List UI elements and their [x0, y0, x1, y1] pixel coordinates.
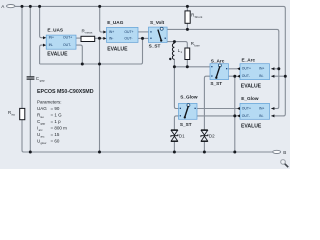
- svg-text:iso: iso: [40, 115, 44, 119]
- block E_Glow EVALUE: [240, 103, 270, 119]
- node dot bottom-D2: [203, 151, 206, 154]
- svg-text:Parameters:: Parameters:: [37, 99, 62, 104]
- switch S_Volt pivot: [160, 39, 162, 41]
- svg-text:EVALUE: EVALUE: [241, 124, 262, 130]
- svg-text:OUT-: OUT-: [124, 36, 132, 40]
- inductor L1 end blob: [169, 58, 171, 60]
- wire E_UAS OUT+ to R_meas: [76, 37, 81, 39]
- node dot W67-L1: [173, 65, 176, 68]
- parameters text block: [37, 89, 94, 145]
- magnifier icon: [281, 160, 286, 165]
- svg-text:UAG: UAG: [37, 106, 47, 111]
- svg-text:IN+: IN+: [259, 67, 264, 71]
- svg-text:IN+: IN+: [49, 36, 54, 40]
- resistor R_Shunt: [185, 11, 190, 23]
- svg-text:IN-: IN-: [49, 43, 54, 47]
- svg-text:gap: gap: [41, 121, 46, 125]
- svg-text:IN-: IN-: [259, 114, 264, 118]
- terminal B ellipse: [273, 150, 281, 153]
- wire D2 bottom stub: [203, 142, 205, 153]
- wire D1 bottom stub: [173, 142, 175, 153]
- svg-text:OUT+: OUT+: [63, 36, 72, 40]
- svg-text:EVALUE: EVALUE: [241, 84, 262, 90]
- svg-text:EPCOS M50-C90X5MD: EPCOS M50-C90X5MD: [37, 89, 94, 95]
- svg-text:OUT-: OUT-: [242, 114, 250, 118]
- block S_Volt switch: [149, 27, 168, 42]
- switch S_Arc pin marks: [211, 66, 227, 77]
- node dot EArc IN- x285: [284, 75, 287, 78]
- wire E_Arc IN+ stub: [271, 68, 279, 70]
- wire R_fuse bottom stub: [186, 60, 188, 67]
- svg-text:Shunt: Shunt: [195, 15, 203, 19]
- node dot bottom-x99: [98, 151, 101, 154]
- wire L1 top stub: [173, 42, 175, 44]
- wire x99 drop from R_meas node: [99, 38, 101, 152]
- wire V2 C_gap branch lower: [29, 80, 31, 152]
- pin arrow E_Glow IN-: [271, 114, 274, 117]
- wire W30 S_Volt output: [167, 29, 279, 31]
- inductor L1: [172, 43, 174, 59]
- wire node A top rail: [15, 6, 285, 8]
- svg-text:iso: iso: [11, 113, 15, 117]
- wire right edge drop from A rail: [284, 8, 286, 116]
- node dot W30-RShunt: [186, 28, 189, 31]
- wire V1 iso branch down: [21, 6, 23, 108]
- resistor R_meas: [81, 36, 95, 41]
- wire S_Glow to E_Glow row1: [197, 108, 237, 110]
- svg-text:glow: glow: [41, 141, 48, 145]
- pin arrow E_Arc IN+: [271, 67, 274, 70]
- node dot A-V3: [38, 5, 41, 8]
- node dot OUTminus riser: [141, 37, 144, 40]
- wire R_Shunt top stub: [186, 6, 188, 11]
- block E_UAS EVALUE: [46, 35, 76, 49]
- switch S_Volt lever: [158, 30, 161, 41]
- switch S_Volt pin marks: [150, 31, 166, 39]
- wire x278 drop to E_Glow IN+: [271, 31, 279, 109]
- wire S_Glow to E_Glow row2: [197, 115, 237, 117]
- node dot Rmeas-x99: [98, 37, 101, 40]
- block S_Glow switch: [179, 103, 198, 119]
- wire W67 to S_Arc: [174, 66, 210, 68]
- wire E_UAS OUT- leg: [76, 45, 82, 64]
- node dot A-RShunt: [186, 5, 189, 8]
- node dot bottom-D1: [173, 151, 176, 154]
- terminal A ellipse: [7, 5, 15, 8]
- svg-text:= 15: = 15: [51, 132, 60, 137]
- svg-text:S_Arc: S_Arc: [211, 59, 225, 64]
- pin arrow E_Glow OUT+: [237, 107, 240, 110]
- node dot bottom-V2: [29, 151, 32, 154]
- wire bottom rail: [23, 151, 273, 153]
- svg-text:OUT+: OUT+: [124, 30, 133, 34]
- pin arrow E_UAS IN+: [43, 36, 46, 39]
- wire R_Shunt bottom stub: [186, 23, 188, 29]
- capacitor C_gap: [27, 77, 35, 79]
- svg-text:OUT+: OUT+: [242, 67, 251, 71]
- svg-text:S_ST: S_ST: [210, 81, 222, 86]
- wire S_Arc to E_Arc row1: [229, 68, 238, 70]
- pin arrow E_Glow OUT-: [237, 114, 240, 117]
- node dot A-x99: [98, 5, 101, 8]
- node dot A-V2: [29, 5, 32, 8]
- wire E_UAS IN- loop: [40, 45, 44, 64]
- node dot EArc IN+ x278: [277, 67, 280, 70]
- svg-text:S_Glow: S_Glow: [180, 95, 198, 100]
- svg-text:IN+: IN+: [109, 30, 114, 34]
- wire V3 to E_UAS IN+: [40, 6, 44, 37]
- svg-text:D1: D1: [179, 134, 185, 139]
- switch S_Glow lever: [185, 106, 189, 117]
- svg-text:= 800 m: = 800 m: [51, 126, 68, 131]
- wire L1 bottom stub: [173, 59, 175, 67]
- svg-text:= 1 p: = 1 p: [51, 119, 62, 124]
- pin arrow E_UAG IN+: [103, 31, 106, 34]
- wire S_Arc to E_Arc row2: [229, 75, 238, 77]
- node dot EGlow row2 xB: [233, 114, 236, 117]
- svg-text:IN+: IN+: [259, 106, 264, 110]
- svg-text:= 60: = 60: [51, 139, 60, 144]
- wire R_meas to E_UAG IN-: [95, 37, 105, 39]
- wire V1 below R_iso to bottom rail: [22, 120, 24, 152]
- svg-text:fuse: fuse: [194, 43, 200, 47]
- diode D1 bidirectional: [171, 130, 178, 142]
- switch S_Arc lever: [216, 66, 220, 77]
- node dot W64-x99: [98, 63, 101, 66]
- node dot W41-L1: [173, 40, 176, 43]
- svg-text:S_ST: S_ST: [149, 43, 161, 48]
- svg-text:E_UAS: E_UAS: [47, 28, 63, 33]
- diode D2 bidirectional: [201, 130, 208, 142]
- switch S_Arc pivot: [215, 77, 217, 79]
- wire W41 S_Volt pivot to fuse branch: [161, 42, 187, 48]
- resistor R_fuse: [185, 48, 190, 60]
- switch S_Arc contact circle: [218, 64, 221, 67]
- svg-text:= 90: = 90: [51, 106, 60, 111]
- wire E_Arc IN- stub: [271, 75, 285, 77]
- svg-text:meas: meas: [85, 31, 93, 35]
- pin arrow E_Arc OUT-: [237, 75, 240, 78]
- wire drop to S_Glow IN1: [174, 67, 178, 109]
- node dot A-V1: [21, 5, 24, 8]
- svg-text:OUT-: OUT-: [242, 74, 250, 78]
- wire E_UAG OUT+ to S_Volt: [138, 31, 149, 33]
- svg-text:gap: gap: [40, 78, 45, 82]
- svg-text:B: B: [283, 150, 286, 155]
- node dot EArc row2 xB: [233, 75, 236, 78]
- svg-text:IN-: IN-: [109, 36, 114, 40]
- svg-text:S_ST: S_ST: [180, 122, 192, 127]
- switch S_Volt contact circle: [160, 27, 163, 30]
- wire A rail to E_UAG IN+: [100, 6, 105, 32]
- wire S_Glow pin2 to D1: [174, 116, 178, 130]
- block E_UAG EVALUE: [107, 27, 139, 42]
- svg-text:S_Volt: S_Volt: [150, 20, 165, 25]
- svg-text:E_UAG: E_UAG: [107, 20, 124, 25]
- switch S_Glow contact circle: [187, 104, 190, 107]
- switch S_Glow pivot: [184, 116, 186, 118]
- svg-text:E_Glow: E_Glow: [241, 96, 259, 101]
- svg-text:EVALUE: EVALUE: [47, 52, 68, 58]
- svg-text:E_Arc: E_Arc: [242, 57, 256, 62]
- svg-text:= 1 G: = 1 G: [51, 113, 63, 118]
- pin arrow E_Arc OUT+: [237, 67, 240, 70]
- switch S_Glow pin marks: [180, 108, 196, 117]
- wire S_Arc pin2 to D2 riser: [204, 76, 210, 130]
- wire E_UAG OUT- to S_Volt: [138, 37, 149, 39]
- svg-text:D2: D2: [209, 134, 215, 139]
- svg-text:OUT-: OUT-: [63, 43, 71, 47]
- wire E_Glow IN- stub: [271, 115, 284, 117]
- svg-text:OUT+: OUT+: [242, 106, 251, 110]
- resistor R_iso: [20, 108, 25, 119]
- svg-text:arc: arc: [41, 134, 45, 138]
- wire W64 E_UAS minus node: [40, 38, 143, 64]
- svg-text:EVALUE: EVALUE: [107, 46, 128, 52]
- block E_Arc EVALUE: [240, 64, 270, 80]
- pin arrow E_Arc IN-: [271, 75, 274, 78]
- pin arrow E_Glow IN+: [271, 107, 274, 110]
- block S_Arc switch: [210, 64, 229, 80]
- node dot bottom-xB: [233, 151, 236, 154]
- node dot W64-x82: [81, 63, 84, 66]
- wire xB drop B rail: [234, 76, 236, 152]
- svg-text:IN-: IN-: [259, 74, 264, 78]
- pin arrow E_UAG IN-: [103, 37, 106, 40]
- wire V2 C_gap branch upper: [29, 6, 31, 76]
- pin arrow E_UAS IN-: [43, 44, 46, 47]
- node dot W67-Rfuse: [186, 65, 189, 68]
